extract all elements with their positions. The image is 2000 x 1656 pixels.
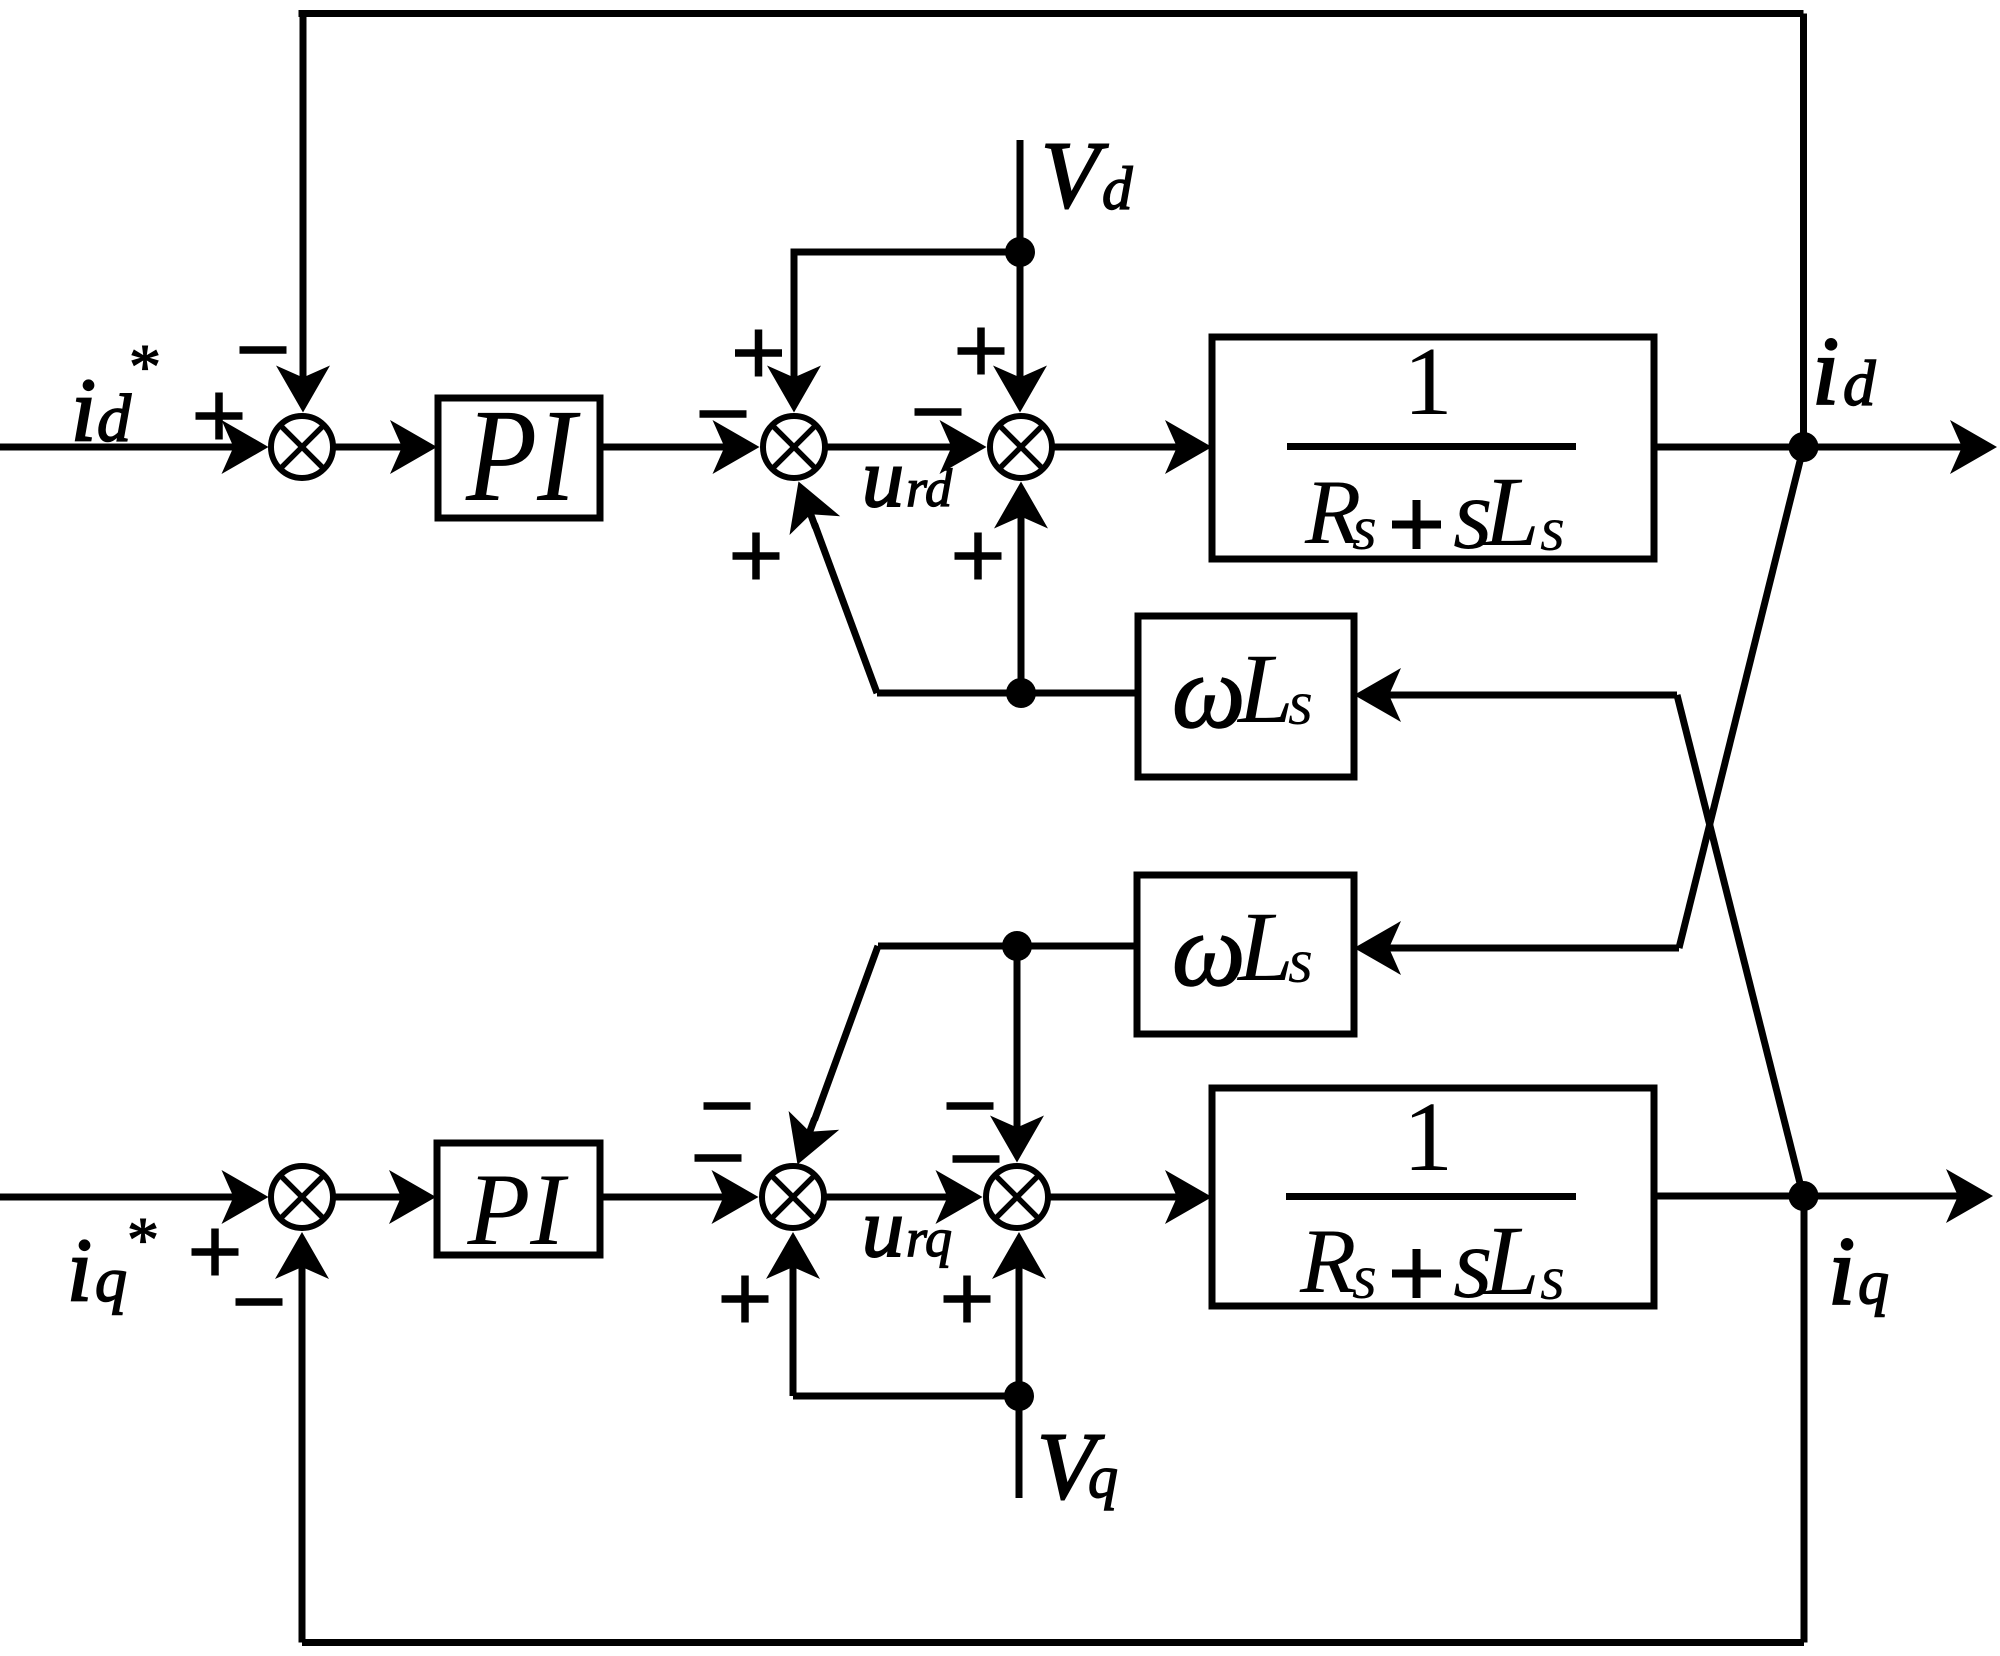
svg-text:L: L xyxy=(1482,1205,1540,1316)
svg-text:s: s xyxy=(1352,1241,1377,1312)
svg-text:*: * xyxy=(129,331,161,402)
svg-text:i: i xyxy=(67,1221,92,1320)
svg-text:1: 1 xyxy=(1404,328,1453,436)
svg-text:d: d xyxy=(97,380,132,456)
svg-text:rq: rq xyxy=(906,1208,952,1268)
svg-text:u: u xyxy=(862,432,904,525)
svg-text:q: q xyxy=(1088,1444,1118,1510)
svg-text:rd: rd xyxy=(906,458,953,518)
svg-text:s: s xyxy=(1288,667,1313,738)
svg-text:V: V xyxy=(1041,122,1109,228)
svg-text:d: d xyxy=(1102,156,1133,223)
svg-text:s: s xyxy=(1540,1242,1565,1313)
svg-text:PI: PI xyxy=(467,1153,570,1267)
svg-text:*: * xyxy=(127,1204,159,1275)
svg-text:L: L xyxy=(1236,891,1294,1002)
svg-text:PI: PI xyxy=(465,381,581,529)
svg-text:L: L xyxy=(1482,456,1540,567)
svg-text:ω: ω xyxy=(1172,893,1245,1008)
svg-text:i: i xyxy=(1828,1218,1855,1326)
svg-text:d: d xyxy=(1843,348,1876,420)
svg-text:s: s xyxy=(1352,492,1377,563)
svg-text:i: i xyxy=(71,361,96,460)
svg-text:i: i xyxy=(1812,318,1839,426)
svg-text:q: q xyxy=(1858,1249,1889,1317)
svg-text:s: s xyxy=(1540,493,1565,564)
svg-text:u: u xyxy=(862,1182,904,1275)
svg-text:1: 1 xyxy=(1403,1081,1453,1192)
svg-text:R: R xyxy=(1299,1210,1356,1312)
svg-text:q: q xyxy=(95,1244,127,1315)
svg-text:ω: ω xyxy=(1172,635,1245,750)
svg-text:s: s xyxy=(1288,925,1313,996)
svg-text:L: L xyxy=(1236,633,1294,744)
